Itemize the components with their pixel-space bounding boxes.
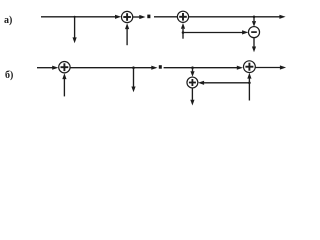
wire down into U6 (192, 68, 194, 72)
wire top input of U3 (253, 17, 255, 22)
wire U1 output arrow (133, 16, 140, 18)
node sampler symbol row a (147, 15, 150, 19)
node junction above U6 (191, 66, 194, 69)
wire bottom output of U3 (253, 38, 255, 47)
svg-text:б): б) (5, 70, 13, 81)
wire arrowhead into summing node U1 (115, 15, 121, 19)
node sampler symbol row b (159, 65, 162, 69)
op-amp summing node U1 (circle with plus) (121, 11, 132, 22)
wire bottom input of U4 (63, 79, 65, 97)
wire branch down arrow row a (74, 17, 76, 38)
op-amp summing node U6 (circle with plus) (187, 77, 198, 88)
wire right input of U6 (204, 82, 250, 84)
wire main output row b (255, 67, 280, 69)
node branch junction row a (74, 16, 76, 18)
node junction on output line row a (253, 15, 256, 18)
wire bottom input of U1 (126, 29, 128, 45)
op-amp summing node U4 (circle with plus) (59, 61, 70, 72)
wire main output row a (189, 16, 280, 18)
node junction under U5 (248, 82, 251, 85)
wire bottom output of U6 (191, 88, 193, 100)
wire arrowhead before sampler row b (151, 66, 157, 70)
wire to U2 (154, 16, 177, 18)
wire bottom input of U5 (248, 78, 250, 100)
wire feedback line to U3 (183, 32, 243, 34)
wire bottom input of U2 (182, 29, 184, 39)
op-amp summing node U2 (circle with plus) (177, 11, 188, 22)
svg-text:а): а) (4, 15, 12, 26)
wire main input line row a (41, 16, 115, 18)
wire branch down arrow row b (133, 68, 135, 87)
op-amp difference node U3 (circle with minus) (248, 27, 259, 38)
wire to U5 (164, 67, 238, 69)
node junction under U2 (182, 31, 185, 34)
op-amp summing node U5 (circle with plus) (244, 61, 256, 73)
node branch junction row b (132, 66, 135, 69)
wire input row b (37, 67, 53, 69)
wire U4 output line (70, 67, 152, 69)
